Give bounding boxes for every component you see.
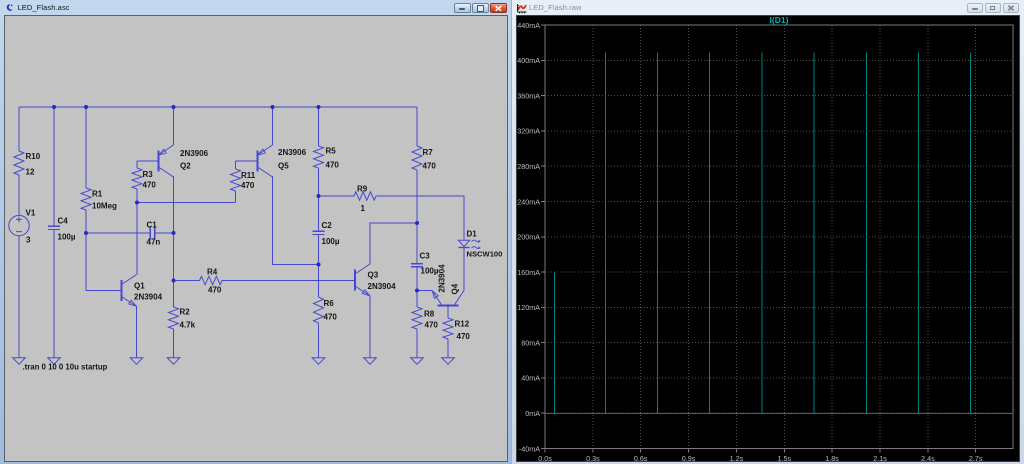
svg-text:240mA: 240mA: [517, 197, 540, 206]
junction node R1-C1-Q1b: [84, 231, 88, 235]
resistor R4: [200, 276, 223, 284]
svg-text:160mA: 160mA: [517, 268, 540, 277]
svg-text:R11: R11: [241, 171, 256, 180]
ground (V1): [13, 358, 26, 365]
wire R9 node to D1 anode: [319, 196, 465, 240]
svg-text:Q4: Q4: [450, 283, 459, 294]
LED D1: [458, 240, 481, 249]
svg-text:470: 470: [423, 162, 437, 171]
plot axis frame: [541, 25, 1013, 453]
svg-text:0.6s: 0.6s: [634, 454, 648, 463]
svg-text:Q1: Q1: [134, 282, 145, 291]
junction node Q2e/rail: [172, 105, 176, 109]
svg-text:12: 12: [26, 168, 35, 177]
wire C3 column: [416, 223, 418, 291]
junction node C1-Q2c: [172, 231, 176, 235]
svg-text:Q2: Q2: [180, 162, 191, 171]
wire Q2 emitter to rail: [173, 107, 175, 145]
junction node C3-R8-Q4e: [415, 289, 419, 293]
voltage source V1: [9, 215, 29, 235]
svg-text:1.2s: 1.2s: [730, 454, 744, 463]
svg-text:R3: R3: [143, 170, 154, 179]
svg-text:2N3904: 2N3904: [368, 282, 397, 291]
resistor R12: [443, 318, 453, 339]
svg-text:C4: C4: [58, 217, 69, 226]
svg-text:280mA: 280mA: [517, 162, 540, 171]
svg-text:R7: R7: [423, 148, 434, 157]
svg-text:0.9s: 0.9s: [682, 454, 696, 463]
svg-text:I(D1): I(D1): [770, 15, 789, 25]
svg-text:0.0s: 0.0s: [538, 454, 552, 463]
plot x labels: [538, 454, 983, 463]
svg-text:320mA: 320mA: [517, 127, 540, 136]
resistor R5: [314, 146, 324, 168]
svg-text:2.1s: 2.1s: [873, 454, 887, 463]
svg-text:NSCW100: NSCW100: [467, 250, 503, 259]
ground (Q1 emitter): [130, 358, 143, 365]
junction node R5/rail: [317, 105, 321, 109]
junction node R3-R11-Q1c: [135, 201, 139, 205]
wire top supply rail: [19, 106, 417, 108]
resistor R2: [169, 307, 179, 329]
svg-text:40mA: 40mA: [521, 374, 540, 383]
resistor R1: [81, 188, 91, 210]
transistor Q1: [122, 275, 137, 307]
svg-text:360mA: 360mA: [517, 91, 540, 100]
svg-text:R2: R2: [180, 308, 191, 317]
svg-text:R6: R6: [324, 299, 335, 308]
ground (Q3 emitter): [364, 358, 377, 365]
ground (R6): [312, 358, 325, 365]
svg-text:2.4s: 2.4s: [921, 454, 935, 463]
svg-text:R4: R4: [207, 268, 218, 277]
wire R12 branch: [447, 306, 449, 358]
resistor R10: [14, 151, 24, 175]
svg-text:10Meg: 10Meg: [92, 202, 117, 211]
svg-text:470: 470: [324, 313, 338, 322]
plot y labels: [517, 21, 540, 454]
wire Q5 emitter to rail: [272, 107, 274, 145]
junction node R1/rail: [84, 105, 88, 109]
svg-text:120mA: 120mA: [517, 303, 540, 312]
transistor Q4: [432, 291, 464, 306]
resistor R7: [412, 146, 422, 170]
resistor R9: [354, 192, 376, 200]
resistor R11: [235, 161, 237, 169]
svg-text:D1: D1: [467, 230, 478, 239]
svg-text:C2: C2: [322, 221, 333, 230]
wire R2 branch: [173, 281, 175, 358]
svg-text:C1: C1: [147, 220, 158, 229]
ground (C4): [48, 358, 61, 365]
junction node C4/rail: [52, 105, 56, 109]
svg-text:.tran 0 10 0 10u startup: .tran 0 10 0 10u startup: [23, 363, 108, 372]
wire Q2 base link: [137, 160, 159, 162]
wire R1 bottom to Q1 base: [86, 233, 122, 291]
capacitor C4: [48, 226, 60, 229]
wire D1 cathode to Q4 collector: [463, 247, 465, 290]
svg-text:4.7k: 4.7k: [180, 321, 196, 330]
svg-text:1.8s: 1.8s: [825, 454, 839, 463]
svg-text:80mA: 80mA: [521, 338, 540, 347]
wire Q5 collector to C2 bottom node: [273, 176, 319, 264]
svg-text:470: 470: [425, 321, 439, 330]
wire V1 column to ground: [18, 107, 20, 358]
svg-text:C3: C3: [420, 252, 431, 261]
svg-text:1: 1: [361, 204, 366, 213]
transistor Q3: [355, 264, 370, 296]
svg-text:Q5: Q5: [278, 162, 289, 171]
svg-text:470: 470: [143, 181, 157, 190]
svg-text:0mA: 0mA: [525, 409, 540, 418]
svg-text:R5: R5: [326, 147, 337, 156]
svg-text:2N3906: 2N3906: [180, 149, 209, 158]
resistor R8: [412, 307, 422, 329]
wire C4 column: [53, 107, 55, 358]
svg-text:470: 470: [326, 161, 340, 170]
svg-text:2N3904: 2N3904: [437, 264, 446, 293]
svg-text:R12: R12: [455, 320, 470, 329]
resistor R3: [136, 161, 138, 168]
svg-text:R10: R10: [26, 152, 41, 161]
wire R8 branch: [416, 291, 418, 358]
resistor R6: [314, 297, 324, 323]
svg-text:1.5s: 1.5s: [778, 454, 792, 463]
wire R6 bottom to ground: [318, 323, 320, 358]
junction node Q5e/rail: [271, 105, 275, 109]
wire Q1 emitter to ground: [136, 306, 138, 357]
trace I(D1): [545, 52, 1013, 413]
svg-text:V1: V1: [26, 209, 36, 218]
wire C1 right to node: [155, 232, 174, 234]
transistor Q2: [159, 145, 174, 177]
wire R5 column: [318, 107, 320, 297]
svg-text:R1: R1: [92, 190, 103, 199]
svg-text:100µ: 100µ: [58, 233, 76, 242]
svg-text:440mA: 440mA: [517, 21, 540, 30]
junction node R4-R2: [172, 279, 176, 283]
wire Q3 emitter to ground: [369, 296, 371, 358]
wire R3 bottom node to R11 bottom: [137, 202, 236, 204]
capacitor C1: [150, 227, 154, 240]
ground (R2): [167, 358, 180, 365]
svg-text:470: 470: [208, 286, 222, 295]
svg-text:400mA: 400mA: [517, 56, 540, 65]
wire C1 left: [86, 232, 150, 234]
wire R7 column: [416, 107, 418, 223]
svg-text:2.7s: 2.7s: [969, 454, 983, 463]
junction node C2-Q5c: [317, 263, 321, 267]
plot grid: [545, 25, 1013, 449]
svg-text:2N3906: 2N3906: [278, 148, 307, 157]
svg-text:2N3904: 2N3904: [134, 293, 163, 302]
svg-text:Q3: Q3: [368, 271, 379, 280]
transistor Q5: [258, 145, 273, 177]
capacitor C2: [313, 231, 325, 234]
svg-text:47n: 47n: [147, 238, 161, 247]
svg-text:-40mA: -40mA: [519, 444, 540, 453]
wire Q2 collector down through C1 node: [173, 176, 175, 280]
capacitor C3: [411, 264, 423, 267]
svg-text:3: 3: [26, 236, 31, 245]
svg-text:100µ: 100µ: [322, 237, 340, 246]
wire R4 node to Q3 base: [174, 280, 356, 282]
wire Q1 collector riser: [136, 203, 138, 275]
wire R1 column: [85, 107, 87, 233]
svg-text:0.3s: 0.3s: [586, 454, 600, 463]
junction node Q3c-R7-C3: [415, 221, 419, 225]
svg-text:470: 470: [457, 332, 471, 341]
ground (R12): [442, 358, 455, 365]
svg-text:100µ: 100µ: [421, 267, 439, 276]
svg-text:R8: R8: [424, 310, 435, 319]
wire Q4 emitter link: [417, 290, 432, 292]
svg-text:R9: R9: [357, 185, 368, 194]
svg-text:200mA: 200mA: [517, 233, 540, 242]
svg-text:470: 470: [241, 181, 255, 190]
wire Q3 collector to C3 node: [370, 223, 417, 264]
ground (R8): [411, 358, 424, 365]
wire Q5 base link: [236, 160, 258, 162]
junction node R5-C2-R9: [317, 194, 321, 198]
